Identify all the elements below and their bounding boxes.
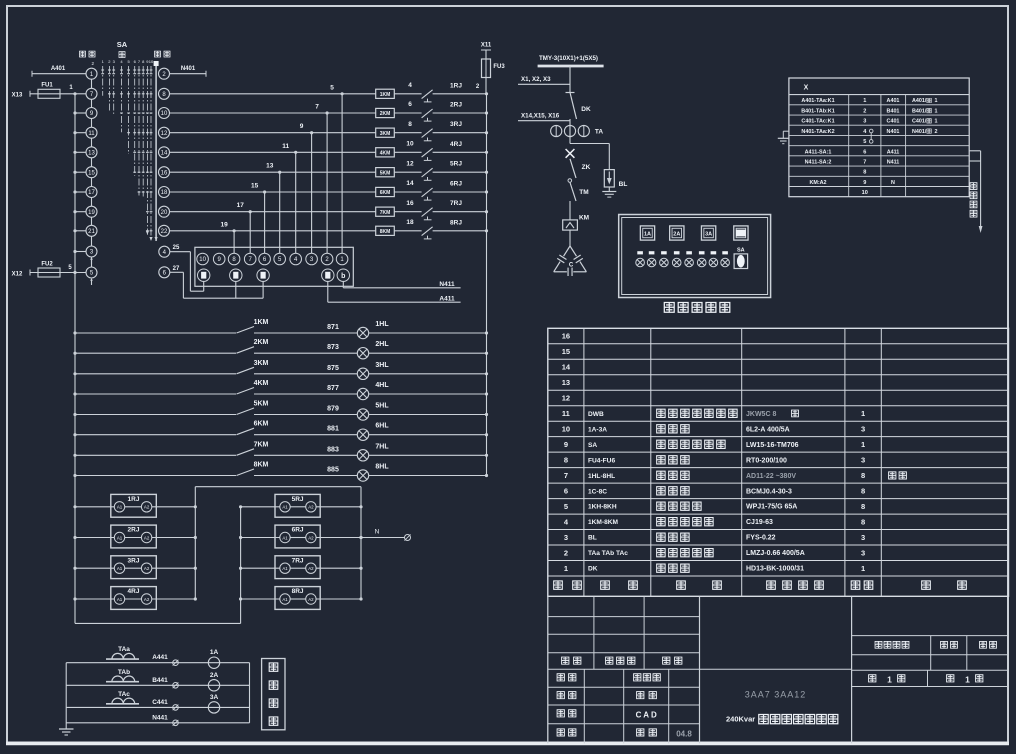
SA labels auto/zero/manual bbox=[79, 40, 170, 58]
BOM row 7: 1HL-8HL bbox=[564, 471, 907, 480]
svg-text:5RJ: 5RJ bbox=[450, 161, 462, 168]
svg-text:3A: 3A bbox=[210, 694, 219, 701]
step row 6: wire from SA terminal 18 bbox=[170, 183, 376, 194]
svg-text:10: 10 bbox=[406, 141, 414, 148]
svg-text:A401: A401 bbox=[51, 66, 66, 72]
svg-text:1HL: 1HL bbox=[375, 321, 389, 328]
arrester ground bbox=[602, 187, 616, 197]
title block drawing-mark header bbox=[875, 641, 996, 648]
svg-text:4RJ: 4RJ bbox=[128, 588, 140, 595]
step row 7: wire from SA terminal 20 bbox=[170, 202, 376, 213]
svg-text:X14,X15, X16: X14,X15, X16 bbox=[521, 113, 560, 120]
contactor coil 4KM bbox=[376, 148, 395, 157]
svg-text:2HL: 2HL bbox=[375, 341, 389, 348]
wire 10 and thermal relay contact 4RJ bbox=[394, 141, 488, 161]
thermal relay 5RJ coil box bbox=[239, 494, 363, 517]
ammeter 3A bbox=[208, 694, 219, 713]
svg-text:1: 1 bbox=[861, 564, 865, 573]
svg-text:8RJ: 8RJ bbox=[292, 588, 304, 595]
wire 871 and signal lamp 1HL bbox=[254, 321, 488, 339]
wire 12 and thermal relay contact 5RJ bbox=[394, 160, 488, 180]
svg-text:SA: SA bbox=[737, 248, 745, 254]
svg-text:8KM: 8KM bbox=[380, 229, 391, 235]
controller output wire N411 bbox=[343, 281, 460, 288]
svg-text:17: 17 bbox=[88, 190, 95, 196]
power-factor controller U1 (JKW5C) box bbox=[195, 247, 353, 286]
svg-text:1: 1 bbox=[861, 409, 865, 418]
panel layout box bbox=[619, 215, 771, 298]
lamp circuit row 4: contact 4KM bbox=[73, 380, 268, 396]
svg-text:FYS-0.22: FYS-0.22 bbox=[746, 535, 776, 542]
svg-text:13: 13 bbox=[266, 163, 274, 170]
panel meter 2A bbox=[670, 226, 684, 240]
contactor coil 5KM bbox=[376, 168, 395, 177]
svg-text:14: 14 bbox=[161, 151, 168, 157]
svg-text:A1: A1 bbox=[117, 535, 123, 540]
svg-text:X: X bbox=[804, 85, 809, 92]
svg-text:2: 2 bbox=[935, 129, 938, 135]
svg-text:N411: N411 bbox=[439, 281, 455, 288]
BOM row 4: 1KM-8KM bbox=[564, 517, 865, 526]
svg-text:FU4-FU6: FU4-FU6 bbox=[588, 457, 615, 464]
svg-text:A1: A1 bbox=[282, 597, 288, 602]
svg-text:5KM: 5KM bbox=[380, 170, 391, 176]
lamp circuit row 6: contact 6KM bbox=[73, 421, 268, 437]
svg-text:A2: A2 bbox=[144, 505, 150, 510]
panel meter 3A bbox=[701, 226, 715, 240]
svg-text:16: 16 bbox=[406, 200, 414, 207]
svg-text:8: 8 bbox=[564, 455, 568, 464]
svg-text:TMY-3(10X1)+1(5X5): TMY-3(10X1)+1(5X5) bbox=[539, 55, 598, 62]
svg-text:N401: N401 bbox=[181, 66, 196, 72]
BOM row 11: DWB bbox=[562, 409, 865, 418]
svg-text:5KM: 5KM bbox=[254, 401, 269, 408]
svg-text:5: 5 bbox=[330, 84, 334, 91]
svg-text:9: 9 bbox=[863, 180, 866, 186]
title block signature labels bbox=[557, 674, 692, 739]
svg-text:4RJ: 4RJ bbox=[450, 141, 462, 148]
svg-text:6KM: 6KM bbox=[380, 190, 391, 196]
thermal relay 3RJ coil box bbox=[73, 556, 196, 579]
wire 8 and thermal relay contact 3RJ bbox=[394, 121, 488, 141]
svg-text:20: 20 bbox=[161, 210, 168, 216]
BOM row 3: BL bbox=[564, 533, 865, 542]
svg-text:1: 1 bbox=[863, 98, 866, 104]
panel layout caption bbox=[664, 303, 729, 313]
current transformers TA bbox=[551, 119, 604, 144]
thermal relay 1RJ coil box bbox=[73, 494, 196, 517]
SA selector switch label group (auto / SA / zero / manual) bbox=[0, 0, 1, 1]
left control bus (node 1) bbox=[74, 94, 76, 624]
svg-text:AD11-22 ~380V: AD11-22 ~380V bbox=[746, 473, 796, 480]
fuse FU2 bbox=[30, 261, 86, 277]
svg-text:1A: 1A bbox=[210, 649, 219, 656]
svg-text:A411: A411 bbox=[439, 295, 455, 302]
branch wire to arrester bbox=[570, 144, 609, 170]
svg-text:7HL: 7HL bbox=[375, 443, 389, 450]
BOM row 10: 1A-3A bbox=[562, 425, 865, 434]
svg-text:12: 12 bbox=[161, 131, 168, 137]
title block grid bbox=[548, 596, 1009, 743]
svg-text:6HL: 6HL bbox=[375, 423, 389, 430]
svg-text:6RJ: 6RJ bbox=[292, 527, 304, 534]
svg-text:04.8: 04.8 bbox=[676, 730, 692, 739]
svg-text:8: 8 bbox=[408, 121, 412, 128]
wire 873 and signal lamp 2HL bbox=[254, 341, 488, 359]
svg-text:1: 1 bbox=[887, 675, 892, 685]
controller supply terminal 6 wire 27 bbox=[159, 266, 263, 298]
svg-text:3RJ: 3RJ bbox=[450, 121, 462, 128]
current-loop ground bbox=[59, 729, 74, 735]
svg-text:9: 9 bbox=[300, 123, 304, 130]
svg-text:WPJ1-75/G 65A: WPJ1-75/G 65A bbox=[746, 504, 797, 511]
svg-text:A411: A411 bbox=[887, 149, 900, 155]
wire 14 and thermal relay contact 6RJ bbox=[394, 180, 488, 200]
svg-text:10: 10 bbox=[199, 257, 206, 263]
svg-text:1A: 1A bbox=[644, 232, 651, 238]
wire 4 and thermal relay contact 1RJ bbox=[394, 82, 488, 102]
svg-text:18: 18 bbox=[406, 219, 414, 226]
svg-text:TA: TA bbox=[595, 129, 603, 136]
step row 5: wire from SA terminal 16 bbox=[170, 163, 376, 174]
svg-text:6: 6 bbox=[863, 149, 866, 155]
svg-text:12: 12 bbox=[562, 394, 570, 403]
svg-text:1: 1 bbox=[935, 119, 938, 125]
svg-text:KM:A2: KM:A2 bbox=[809, 180, 826, 186]
svg-text:B401/: B401/ bbox=[912, 108, 927, 114]
right control bus wire bbox=[486, 94, 488, 476]
svg-text:FU1: FU1 bbox=[41, 83, 53, 89]
svg-text:A401/: A401/ bbox=[912, 98, 927, 104]
svg-text:X13: X13 bbox=[12, 92, 23, 98]
fuse link cross bbox=[566, 149, 575, 158]
svg-text:10: 10 bbox=[862, 190, 868, 196]
svg-text:16: 16 bbox=[161, 170, 168, 176]
svg-text:N: N bbox=[891, 180, 895, 186]
svg-text:4: 4 bbox=[408, 82, 412, 89]
BOM row 2: TAa TAb TAc bbox=[564, 548, 865, 557]
svg-text:14: 14 bbox=[406, 180, 414, 187]
outgoing wires A411/N411 to incoming cabinet bbox=[969, 151, 982, 233]
svg-text:7: 7 bbox=[564, 471, 568, 480]
svg-text:885: 885 bbox=[327, 467, 339, 474]
svg-text:7: 7 bbox=[315, 104, 319, 111]
contactor KM bbox=[563, 215, 589, 247]
svg-text:19: 19 bbox=[220, 221, 228, 228]
svg-text:7: 7 bbox=[863, 159, 866, 165]
delta capacitor bank C bbox=[554, 246, 587, 276]
terminal X12 bbox=[12, 270, 30, 278]
busbar TMY-3(10X1)+1(5X5) bbox=[538, 55, 604, 92]
svg-text:B401-TAb:K1: B401-TAb:K1 bbox=[801, 108, 834, 114]
svg-text:883: 883 bbox=[327, 446, 339, 453]
contactor coil 7KM bbox=[376, 207, 395, 216]
svg-text:b: b bbox=[341, 273, 345, 280]
svg-text:LMZJ-0.66 400/5A: LMZJ-0.66 400/5A bbox=[746, 550, 805, 557]
svg-text:22: 22 bbox=[161, 229, 168, 235]
svg-text:8HL: 8HL bbox=[375, 464, 389, 471]
terminal strip table X bbox=[789, 78, 969, 197]
svg-text:15: 15 bbox=[251, 183, 259, 190]
svg-text:N411: N411 bbox=[887, 159, 900, 165]
svg-text:C401/: C401/ bbox=[912, 119, 927, 125]
svg-text:1A-3A: 1A-3A bbox=[588, 426, 607, 433]
contactor coil 6KM bbox=[376, 187, 395, 196]
svg-text:A2: A2 bbox=[308, 535, 314, 540]
terminal table entries bbox=[801, 98, 937, 196]
svg-text:FU2: FU2 bbox=[41, 261, 53, 267]
terminals X1 X2 X3 bbox=[518, 76, 570, 84]
step row 8: wire from SA terminal 22 bbox=[170, 221, 376, 232]
svg-text:18: 18 bbox=[161, 190, 168, 196]
lamp circuit row 8: contact 8KM bbox=[73, 462, 268, 478]
controller output wire A411 bbox=[328, 281, 461, 302]
svg-text:27: 27 bbox=[173, 266, 180, 272]
drawing title 240Kvar capacitor cabinet schematic bbox=[726, 714, 838, 723]
svg-text:TAa TAb TAc: TAa TAb TAc bbox=[588, 550, 628, 557]
svg-text:7KM: 7KM bbox=[254, 441, 269, 448]
disconnect switch DK bbox=[566, 93, 591, 120]
svg-text:N401-TAa:K2: N401-TAa:K2 bbox=[801, 129, 834, 135]
svg-text:2: 2 bbox=[564, 548, 568, 557]
step row 1: wire from SA terminal 8 bbox=[170, 84, 376, 95]
contactor coil 2KM bbox=[376, 108, 395, 117]
svg-text:2KM: 2KM bbox=[254, 339, 269, 346]
svg-text:2A: 2A bbox=[210, 672, 219, 679]
svg-text:10: 10 bbox=[161, 111, 168, 117]
wire C441 with terminal bbox=[152, 699, 178, 710]
SA right contact column (circled terminals 2..22) bbox=[159, 68, 170, 236]
svg-text:A1: A1 bbox=[282, 505, 288, 510]
current-loop right rail bbox=[249, 663, 251, 723]
svg-text:21: 21 bbox=[88, 229, 95, 235]
svg-text:N441: N441 bbox=[152, 714, 168, 721]
title block revision header bbox=[562, 657, 682, 664]
svg-text:A2: A2 bbox=[308, 505, 314, 510]
svg-text:A441: A441 bbox=[152, 654, 168, 661]
svg-text:6: 6 bbox=[408, 101, 412, 108]
svg-text:13: 13 bbox=[562, 378, 570, 387]
wire 879 and signal lamp 5HL bbox=[254, 403, 488, 421]
svg-text:X11: X11 bbox=[481, 43, 492, 49]
wire 6 and thermal relay contact 2RJ bbox=[394, 101, 488, 121]
svg-text:2RJ: 2RJ bbox=[450, 102, 462, 109]
svg-text:1KH-8KH: 1KH-8KH bbox=[588, 504, 617, 511]
wire N401 from terminal 2 bbox=[170, 66, 207, 77]
panel selector switch SA bbox=[734, 248, 748, 269]
svg-text:LW15-16-TM706: LW15-16-TM706 bbox=[746, 442, 799, 449]
svg-text:5: 5 bbox=[863, 139, 866, 145]
svg-text:DK: DK bbox=[588, 566, 598, 573]
thermal relay 8RJ coil box bbox=[239, 587, 363, 610]
breaker ZK bbox=[568, 159, 591, 183]
thermal relay 2RJ coil box bbox=[73, 525, 196, 548]
svg-text:KM: KM bbox=[579, 215, 589, 222]
terminals X14 X15 X16 bbox=[518, 113, 570, 121]
contactor coil 3KM bbox=[376, 128, 395, 137]
lamp circuit row 2: contact 2KM bbox=[73, 339, 268, 355]
svg-text:3: 3 bbox=[861, 533, 865, 542]
svg-text:3AA7 3AA12: 3AA7 3AA12 bbox=[745, 690, 807, 700]
terminal link 4-5 bbox=[869, 129, 873, 143]
svg-text:4KM: 4KM bbox=[254, 380, 269, 387]
neutral wire N441 with terminal bbox=[66, 714, 249, 725]
svg-text:A1: A1 bbox=[117, 597, 123, 602]
svg-text:N411-SA:2: N411-SA:2 bbox=[805, 159, 832, 165]
svg-text:14: 14 bbox=[562, 363, 571, 372]
svg-text:25: 25 bbox=[173, 245, 180, 251]
contactor coil 1KM bbox=[376, 89, 395, 98]
SA switch left contact column (circled terminals 1..21, 3, 5) bbox=[73, 61, 97, 285]
wire 883 and signal lamp 7HL bbox=[254, 443, 488, 461]
svg-text:A1: A1 bbox=[282, 566, 288, 571]
svg-text:DK: DK bbox=[581, 106, 591, 113]
svg-text:16: 16 bbox=[562, 332, 570, 341]
svg-text:9: 9 bbox=[564, 440, 568, 449]
svg-text:11: 11 bbox=[88, 131, 95, 137]
svg-text:1: 1 bbox=[965, 675, 970, 685]
svg-text:BL: BL bbox=[588, 535, 597, 542]
bill of materials header row bbox=[554, 581, 967, 589]
svg-text:BL: BL bbox=[619, 181, 628, 188]
wire 881 and signal lamp 6HL bbox=[254, 423, 488, 441]
svg-text:10: 10 bbox=[149, 59, 154, 64]
svg-text:SA: SA bbox=[117, 40, 128, 49]
svg-text:879: 879 bbox=[327, 406, 339, 413]
svg-text:6: 6 bbox=[564, 486, 568, 495]
current transformer TAc bbox=[66, 691, 249, 708]
wire A441 with terminal bbox=[152, 654, 178, 665]
svg-text:A1: A1 bbox=[282, 535, 288, 540]
svg-text:15: 15 bbox=[562, 347, 570, 356]
thermal relay 7RJ coil box bbox=[239, 556, 363, 579]
svg-text:2KM: 2KM bbox=[380, 111, 391, 117]
svg-text:8: 8 bbox=[861, 471, 865, 480]
svg-text:11: 11 bbox=[282, 143, 289, 150]
svg-text:TAc: TAc bbox=[118, 691, 130, 698]
svg-text:JKW5C 8: JKW5C 8 bbox=[746, 411, 776, 418]
svg-text:1KM-8KM: 1KM-8KM bbox=[588, 519, 619, 526]
svg-text:A401: A401 bbox=[887, 98, 900, 104]
switch TM bbox=[570, 183, 589, 220]
svg-text:3: 3 bbox=[861, 548, 865, 557]
wire 877 and signal lamp 4HL bbox=[254, 382, 488, 400]
svg-text:TAa: TAa bbox=[118, 646, 130, 653]
current transformer TAa bbox=[66, 646, 249, 663]
svg-text:8: 8 bbox=[861, 517, 865, 526]
svg-text:CJ19-63: CJ19-63 bbox=[746, 519, 773, 526]
terminal X13 bbox=[12, 91, 30, 99]
step row 3: wire from SA terminal 12 bbox=[170, 123, 376, 134]
BOM row 8: FU4-FU6 bbox=[564, 455, 865, 464]
svg-text:A2: A2 bbox=[308, 597, 314, 602]
lamp circuit row 1: contact 1KM bbox=[73, 319, 268, 335]
svg-text:881: 881 bbox=[327, 426, 339, 433]
svg-text:3A: 3A bbox=[705, 232, 712, 238]
svg-text:FU3: FU3 bbox=[493, 64, 505, 70]
svg-text:ZK: ZK bbox=[582, 164, 591, 171]
wire 16 and thermal relay contact 7RJ bbox=[394, 200, 488, 220]
svg-text:C401-TAc:K1: C401-TAc:K1 bbox=[801, 119, 834, 125]
wire 875 and signal lamp 3HL bbox=[254, 362, 488, 380]
step taps from rows to controller inputs bbox=[234, 94, 342, 253]
svg-text:6L2-A 400/5A: 6L2-A 400/5A bbox=[746, 426, 790, 433]
wire 18 and thermal relay contact 8RJ bbox=[394, 219, 488, 239]
svg-text:7RJ: 7RJ bbox=[450, 200, 462, 207]
svg-text:8RJ: 8RJ bbox=[450, 219, 462, 226]
svg-text:A2: A2 bbox=[144, 535, 150, 540]
wire A401 supply to SA auto terminal bbox=[32, 66, 86, 77]
svg-text:3HL: 3HL bbox=[375, 362, 389, 369]
contactor coil 8KM bbox=[376, 226, 395, 235]
BOM row 5: 1KH-8KH bbox=[564, 502, 865, 511]
svg-text:5: 5 bbox=[564, 502, 568, 511]
svg-text:TM: TM bbox=[579, 189, 588, 196]
svg-text:A401-TAa:K1: A401-TAa:K1 bbox=[801, 98, 834, 104]
svg-text:BCMJ0.4-30-3: BCMJ0.4-30-3 bbox=[746, 488, 792, 495]
svg-text:3KM: 3KM bbox=[254, 360, 269, 367]
lamp circuit row 7: contact 7KM bbox=[73, 441, 268, 457]
svg-text:A2: A2 bbox=[144, 597, 150, 602]
svg-text:1KM: 1KM bbox=[380, 92, 391, 98]
svg-text:1: 1 bbox=[935, 108, 938, 114]
svg-text:A2: A2 bbox=[144, 566, 150, 571]
svg-text:1KM: 1KM bbox=[254, 319, 269, 326]
BOM row 1: DK bbox=[564, 564, 865, 573]
svg-text:5HL: 5HL bbox=[375, 403, 389, 410]
svg-text:1: 1 bbox=[861, 440, 865, 449]
svg-text:A2: A2 bbox=[308, 566, 314, 571]
svg-text:3: 3 bbox=[861, 455, 865, 464]
svg-text:B401: B401 bbox=[887, 108, 900, 114]
controller supply terminal 4 wire 25 bbox=[159, 245, 204, 291]
thermal relay 6RJ coil box bbox=[239, 525, 363, 548]
svg-text:2: 2 bbox=[863, 108, 866, 114]
svg-text:RT0-200/100: RT0-200/100 bbox=[746, 457, 787, 464]
svg-text:8: 8 bbox=[861, 502, 865, 511]
svg-text:7KM: 7KM bbox=[380, 210, 391, 216]
svg-text:4HL: 4HL bbox=[375, 382, 389, 389]
svg-text:1: 1 bbox=[564, 564, 568, 573]
panel indicator lamps 1HL-8HL bbox=[636, 251, 730, 267]
fuse FU1 bbox=[30, 83, 86, 99]
arrester BL bbox=[604, 170, 627, 188]
svg-text:8KM: 8KM bbox=[254, 462, 269, 469]
controller terminals 10..1 bbox=[197, 253, 348, 265]
svg-text:A1: A1 bbox=[117, 505, 123, 510]
BOM row 9: SA bbox=[564, 440, 865, 449]
svg-text:X12: X12 bbox=[12, 271, 23, 277]
svg-text:2RJ: 2RJ bbox=[128, 527, 140, 534]
wire 885 and signal lamp 8HL bbox=[254, 464, 488, 482]
ammeter 1A bbox=[208, 649, 219, 668]
neutral terminal N bbox=[359, 529, 410, 541]
svg-text:871: 871 bbox=[327, 324, 339, 331]
svg-text:8: 8 bbox=[861, 486, 865, 495]
svg-text:1HL-8HL: 1HL-8HL bbox=[588, 473, 615, 480]
svg-text:5RJ: 5RJ bbox=[292, 496, 304, 503]
BOM row 6: 1C-8C bbox=[564, 486, 865, 495]
step row 2: wire from SA terminal 10 bbox=[170, 104, 376, 115]
svg-text:6KM: 6KM bbox=[254, 421, 269, 428]
svg-text:3: 3 bbox=[863, 119, 866, 125]
svg-text:1RJ: 1RJ bbox=[128, 496, 140, 503]
svg-text:1RJ: 1RJ bbox=[450, 82, 462, 89]
svg-text:4KM: 4KM bbox=[380, 150, 391, 156]
control fuse FU3 and terminal X11 bbox=[476, 43, 505, 94]
svg-text:19: 19 bbox=[88, 210, 95, 216]
svg-text:240Kvar: 240Kvar bbox=[726, 715, 755, 724]
